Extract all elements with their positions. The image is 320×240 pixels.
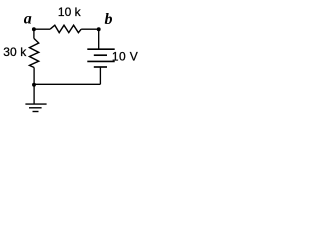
battery V1 plate 2 short <box>94 54 107 56</box>
ground bar 3 <box>33 111 39 113</box>
bottom junction dot <box>32 83 36 87</box>
ground bar 1 <box>25 103 46 105</box>
wire node a down to resistor R2 <box>33 29 35 38</box>
wire node b down to battery V1 <box>98 29 100 49</box>
wire battery V1 to bottom rail <box>99 67 101 84</box>
resistor R2 30k (vertical zigzag) <box>30 38 39 67</box>
svg-text:30 k: 30 k <box>3 45 27 59</box>
ground stub wire <box>33 84 35 104</box>
ground bar 2 <box>29 107 42 109</box>
battery V1 plate 4 short <box>94 66 107 68</box>
battery V1 plate 1 long <box>87 48 114 50</box>
wire bottom rail junction to battery <box>34 83 101 85</box>
node a junction dot <box>32 27 36 31</box>
resistor R1 10k (horizontal zigzag) <box>50 25 81 32</box>
battery V1 plate 3 long <box>87 60 114 62</box>
wire resistor R1 to node b <box>81 28 99 30</box>
svg-text:a: a <box>24 11 32 28</box>
node b junction dot <box>97 27 101 31</box>
wire resistor R2 to bottom junction <box>33 68 35 85</box>
svg-text:10 k: 10 k <box>58 5 82 19</box>
wire node a to resistor R1 <box>34 28 50 30</box>
svg-text:b: b <box>105 11 113 28</box>
svg-text:10 V: 10 V <box>112 50 138 64</box>
